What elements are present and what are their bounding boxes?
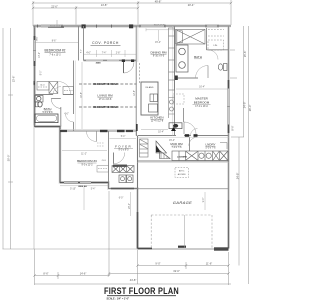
- svg-text:24'-8": 24'-8": [243, 102, 247, 109]
- hall south wall / bed3 top wall: [60, 130, 137, 132]
- dark wall segment foyer NE: [136, 124, 138, 131]
- wc walls: [206, 28, 208, 50]
- master bath shower: [176, 30, 206, 45]
- svg-text:5'-4": 5'-4": [121, 136, 126, 138]
- porch wall windows: [86, 59, 119, 61]
- grade line bottom left: [3, 248, 138, 250]
- exterior wall band: [33, 26, 231, 249]
- svg-text:KITCHEN: KITCHEN: [150, 116, 163, 120]
- bath tub: [35, 114, 58, 123]
- laundry doors: [189, 137, 198, 146]
- svg-text:50'-0": 50'-0": [7, 155, 11, 162]
- svg-text:FOYER: FOYER: [115, 144, 132, 148]
- svg-text:11'-6": 11'-6": [206, 261, 212, 265]
- svg-text:8'-6": 8'-6": [52, 41, 57, 43]
- svg-text:3068: 3068: [96, 62, 102, 64]
- svg-text:2850 SH: 2850 SH: [78, 186, 87, 188]
- svg-text:15'-4": 15'-4": [155, 42, 161, 44]
- svg-text:BEDROOM #3: BEDROOM #3: [77, 159, 97, 163]
- interior wall double-line accents: [60, 26, 229, 163]
- svg-text:DECORATIVE BEAM: DECORATIVE BEAM: [93, 106, 117, 109]
- svg-text:ATTIC: ATTIC: [179, 170, 185, 173]
- mud-laundry wall: [189, 137, 191, 151]
- garage front wall: [138, 246, 229, 251]
- svg-text:ACCESS: ACCESS: [178, 173, 187, 176]
- garage door dashed rect: [151, 215, 212, 248]
- svg-text:MUD RM: MUD RM: [170, 142, 183, 146]
- left wall dark jambs: [34, 36, 36, 40]
- svg-text:9'-10 x 9'-0: 9'-10 x 9'-0: [153, 56, 165, 58]
- svg-text:9'-0 x 11'-2: 9'-0 x 11'-2: [81, 165, 93, 167]
- interior dim lines: [35, 28, 229, 216]
- svg-text:DINING RM: DINING RM: [151, 51, 168, 55]
- svg-text:9'-0 x 8'-0: 9'-0 x 8'-0: [119, 149, 130, 151]
- bedroom2 closet: [37, 82, 58, 94]
- svg-text:CLO.: CLO.: [40, 84, 45, 86]
- porch front wall: [84, 59, 137, 62]
- svg-text:49'-8": 49'-8": [155, 0, 162, 4]
- right dimension lines: [230, 26, 249, 284]
- kitchen right counter: [169, 28, 175, 90]
- foyer door arc: [113, 153, 115, 164]
- hall doors arcs: [53, 87, 61, 95]
- svg-text:13'-2": 13'-2": [39, 52, 41, 58]
- kitchen-master wall: [174, 26, 176, 136]
- darker wall: bed3 left: [59, 127, 61, 183]
- RIDGE labels: [50, 23, 165, 28]
- svg-text:BEDROOM #2: BEDROOM #2: [45, 48, 66, 52]
- svg-text:LNDRY: LNDRY: [205, 143, 215, 147]
- top wall window ticks: [38, 25, 219, 28]
- svg-text:15'-4": 15'-4": [169, 140, 175, 142]
- foyer bench boxes: [112, 166, 134, 173]
- bath right wall: [60, 107, 62, 127]
- foyer east short wall: [136, 131, 138, 136]
- svg-text:LOCKERS: LOCKERS: [177, 157, 187, 159]
- svg-text:17'-0 x 16'-8: 17'-0 x 16'-8: [99, 99, 112, 101]
- left footprint extension line: [33, 128, 35, 249]
- svg-text:5'-4": 5'-4": [91, 188, 96, 190]
- top dimension texts: [51, 0, 194, 9]
- darker wall: bath bottom: [35, 126, 61, 128]
- bottom dimension lines: [35, 191, 232, 285]
- right wall dark jambs: [228, 80, 230, 89]
- kitchen/mud south wall: [138, 135, 177, 137]
- svg-text:7'-6 x 13'-2: 7'-6 x 13'-2: [49, 55, 61, 57]
- mud east wall stub: [183, 108, 185, 122]
- svg-text:13'-6": 13'-6": [12, 76, 16, 83]
- svg-text:14'-8": 14'-8": [101, 3, 108, 7]
- svg-text:24'-8": 24'-8": [236, 173, 240, 180]
- svg-text:ISLAND: ISLAND: [146, 86, 154, 89]
- black diamond marker: [171, 127, 176, 131]
- svg-text:9'-0": 9'-0": [203, 198, 205, 203]
- pantry shelves: [140, 139, 149, 157]
- svg-text:CLO.: CLO.: [102, 160, 107, 162]
- svg-text:16'-4": 16'-4": [199, 87, 205, 89]
- bed3 door arc: [87, 132, 97, 142]
- bath sink: [35, 96, 43, 103]
- room label underlines: [44, 55, 216, 164]
- dark jamb laundry wall: [194, 134, 198, 137]
- windows top wall lighter bands: [41, 25, 217, 27]
- svg-text:11'-2": 11'-2": [81, 154, 87, 156]
- svg-text:22'-0": 22'-0": [51, 5, 58, 9]
- dark jamb mud wall: [185, 134, 189, 137]
- stairs hatched triangles: [156, 141, 170, 159]
- exterior wall centerlines: [33, 26, 231, 249]
- bath top wall: [35, 94, 54, 96]
- svg-text:BATH: BATH: [194, 55, 202, 59]
- svg-text:BEDROOM: BEDROOM: [194, 100, 210, 104]
- master toilet: [224, 64, 228, 71]
- svg-text:26'-0": 26'-0": [248, 105, 252, 112]
- linen dashed: [208, 40, 224, 50]
- left dimension rotated texts: [7, 76, 16, 162]
- bed3 shelf marks: [97, 142, 104, 144]
- cased opening dashed: [138, 63, 140, 84]
- master bath south wall: [175, 77, 199, 79]
- bath toilet: [35, 102, 38, 107]
- lockers / wd row: [172, 151, 228, 161]
- svg-text:10'-4": 10'-4": [158, 132, 164, 134]
- powder fixtures: [119, 175, 133, 183]
- svg-text:5'-0 x 9'-8: 5'-0 x 9'-8: [43, 112, 54, 114]
- porch left wall: [83, 26, 85, 61]
- svg-text:7'-0 x 7'-6: 7'-0 x 7'-6: [172, 147, 183, 149]
- kitchen sink counter: [169, 123, 182, 129]
- right wall window band: [228, 89, 230, 125]
- svg-text:11'-4 x 12'-8: 11'-4 x 12'-8: [151, 121, 164, 123]
- svg-text:8'-0": 8'-0": [231, 125, 235, 130]
- svg-text:19'-6": 19'-6": [173, 269, 180, 273]
- left wall window band: [34, 40, 36, 61]
- svg-text:14'-6": 14'-6": [80, 271, 87, 275]
- svg-text:8'-0": 8'-0": [81, 49, 83, 53]
- svg-text:6'-0": 6'-0": [119, 197, 124, 199]
- dark header segments on hall south wall: [100, 130, 108, 132]
- bed3 closet dashes: [97, 166, 109, 173]
- living room decorative beams: [79, 84, 137, 107]
- darker wall: right wall lower: [228, 200, 230, 249]
- darker wall: bed3 bottom with windows: [60, 182, 109, 184]
- master bath doors: [196, 66, 209, 79]
- dimension texts interior: [52, 41, 205, 200]
- laundry closet marks: [220, 143, 227, 150]
- room labels: [44, 51, 216, 164]
- svg-text:17'-0 x 13'-0: 17'-0 x 13'-0: [195, 106, 208, 108]
- master vanity: [176, 45, 188, 72]
- svg-text:12'-8": 12'-8": [134, 90, 136, 96]
- bottom dimension texts: [43, 261, 212, 282]
- hall linen: [63, 87, 74, 95]
- svg-text:DECORATIVE BEAM: DECORATIVE BEAM: [93, 83, 117, 86]
- attic access dashed: [175, 168, 189, 178]
- bed3 right wall: [108, 131, 110, 183]
- ridge wall dark segment: [48, 26, 64, 28]
- right dimension rotated texts: [231, 51, 252, 180]
- entry door: [123, 62, 125, 73]
- interior walls light: [35, 26, 229, 183]
- svg-text:LIN.: LIN.: [213, 45, 217, 47]
- svg-text:COV. PORCH: COV. PORCH: [92, 41, 119, 45]
- hall-living wall: [73, 61, 75, 115]
- top dimension ticks: [32, 2, 232, 9]
- beam labels: [93, 83, 117, 109]
- svg-text:5'-10": 5'-10": [70, 188, 76, 190]
- svg-text:GARAGE: GARAGE: [173, 200, 193, 205]
- svg-text:9'-0": 9'-0": [155, 261, 160, 265]
- exterior wall edge lines: [33, 25, 231, 249]
- dining/kitchen west wall: [135, 26, 137, 136]
- bath door arc: [51, 99, 61, 109]
- svg-text:LIVING RM: LIVING RM: [97, 94, 113, 98]
- mud door arc: [184, 122, 196, 134]
- master bedroom dashed rect: [173, 94, 184, 104]
- room size labels: [43, 55, 217, 167]
- darker wall: garage west lower: [137, 212, 139, 249]
- svg-text:8'-0": 8'-0": [41, 71, 43, 76]
- garage north wall: [138, 160, 229, 162]
- svg-text:8'-6": 8'-6": [43, 271, 48, 275]
- garage beam dashed: [138, 188, 229, 190]
- svg-text:FIRST FLOOR PLAN: FIRST FLOOR PLAN: [104, 285, 179, 296]
- left dimension lines: [3, 28, 13, 249]
- svg-text:20'-4": 20'-4": [188, 3, 195, 7]
- svg-text:BATH: BATH: [44, 107, 52, 111]
- svg-text:4'-0": 4'-0": [64, 114, 69, 116]
- porch columns: [82, 24, 86, 28]
- svg-text:44'-8": 44'-8": [130, 278, 137, 282]
- svg-text:5'-0 x 7'-6: 5'-0 x 7'-6: [206, 148, 217, 150]
- bedroom2 right wall upper: [78, 26, 80, 61]
- top dimension line overall: [33, 0, 231, 26]
- kitchen island: [141, 82, 158, 115]
- svg-text:15'-6": 15'-6": [243, 51, 247, 58]
- bottom dimension ticks: [33, 264, 229, 276]
